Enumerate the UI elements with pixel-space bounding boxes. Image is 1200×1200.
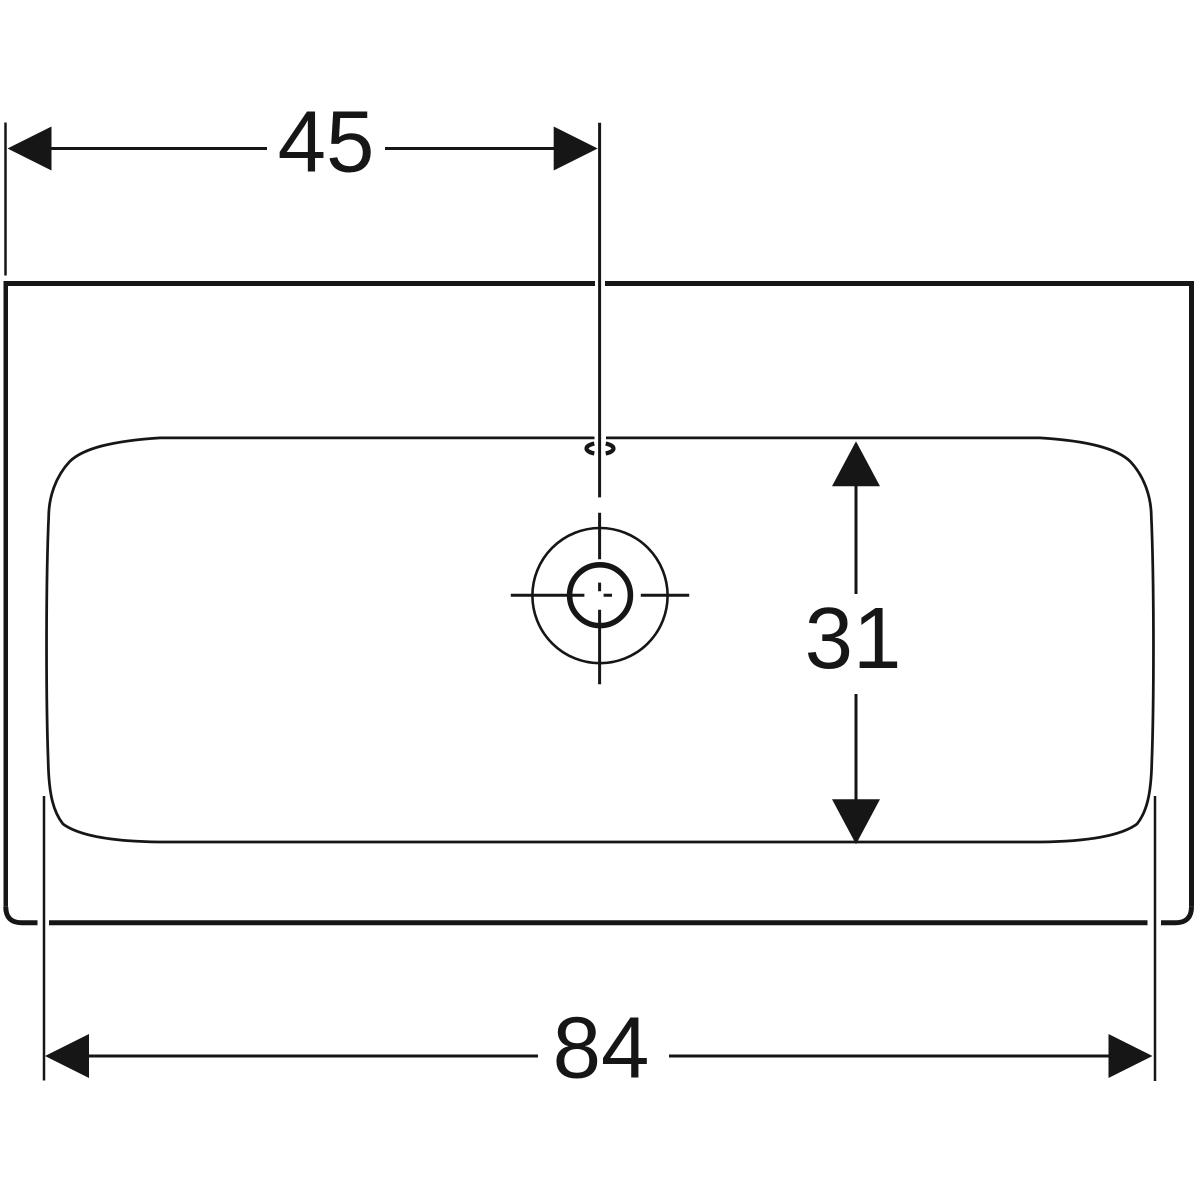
outer ceramic outline bottom-right corner <box>1161 907 1192 923</box>
tap hole oval left arc <box>587 444 595 454</box>
dimension 84 right arrowhead <box>1109 1034 1153 1078</box>
dimension 31 up arrowhead <box>832 441 880 486</box>
outer ceramic outline bottom-left corner <box>6 907 38 923</box>
drain crosshair horizontal centerline <box>511 594 689 597</box>
basin inner rounded rectangle <box>47 438 1154 842</box>
dimension 84 extension line left <box>43 796 46 1081</box>
dimension 45 extension line left <box>4 123 7 276</box>
tap hole oval right arc <box>606 444 614 454</box>
svg-text:31: 31 <box>805 590 902 687</box>
vertical centerline from 45-dimension down to drain <box>598 123 601 498</box>
drain crosshair vertical centerline <box>598 513 601 684</box>
dimension 84 line <box>88 1055 1109 1058</box>
dimension 84 left arrowhead <box>45 1034 89 1078</box>
drain inner ring <box>570 565 631 626</box>
outer ceramic outline bottom edge <box>49 920 1148 925</box>
svg-text:84: 84 <box>553 1000 650 1097</box>
dimension 45 line <box>50 147 555 150</box>
dimension 84 extension line right <box>1154 796 1157 1081</box>
dimension 45 right arrowhead <box>554 127 598 171</box>
dimension 45 left arrowhead <box>8 127 52 171</box>
drain outer circle <box>532 528 667 663</box>
outer ceramic outline top edge <box>4 281 1195 286</box>
outer ceramic outline right edge <box>1189 281 1194 907</box>
outer ceramic outline left edge <box>4 281 9 907</box>
dimension 31 line <box>855 486 858 802</box>
svg-text:45: 45 <box>278 94 375 191</box>
dimension 31 down arrowhead <box>832 799 880 844</box>
